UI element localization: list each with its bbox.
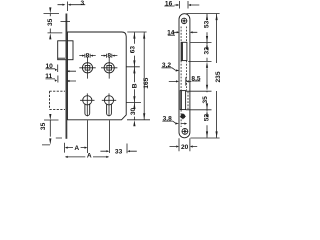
8-dim arrows s1 [82,55,93,57]
svg-text:10: 10 [46,63,54,70]
svg-text:B: B [131,83,138,88]
35 bottom arrows [49,114,51,120]
dim3 arrows [63,4,66,6]
svg-text:63: 63 [130,46,137,54]
dim A row2 line [67,156,107,158]
dim 53 line [206,14,208,43]
svg-text:35: 35 [40,122,47,130]
svg-text:32: 32 [203,47,210,55]
tick on faceplate [61,20,71,22]
A row1 arrows [65,147,68,149]
deadbolt hidden (dashed) [50,91,66,109]
3,8 arrows [175,123,179,125]
32 arrows [206,43,208,49]
svg-text:35: 35 [202,96,209,104]
cylinder hole 2 [104,96,113,105]
dim 165 line [143,32,145,119]
dim 3,8 leader [162,121,184,124]
strike/face plate outline [179,14,190,138]
dim 32 line [206,43,208,62]
dim 35 bottom-left [42,120,62,145]
14 arrows [177,31,180,33]
svg-text:8: 8 [107,52,111,59]
svg-text:20: 20 [181,144,189,151]
lock case body [68,32,127,120]
arrowheads [49,4,218,158]
dim 52 line [206,110,208,137]
svg-text:8,5: 8,5 [191,75,200,82]
right-of-case extension lines [127,32,151,120]
svg-text:52: 52 [203,114,210,122]
dim A row1 line [67,147,85,149]
dim 10 leader [46,65,77,73]
spindle hole 2 [104,63,114,73]
svg-text:30: 30 [130,108,137,116]
dim 235 line [216,14,218,138]
16 arrows [177,4,180,6]
dim 30 line [133,103,135,120]
svg-text:53: 53 [203,20,210,28]
53 arrows [206,14,208,20]
235 arrows [216,14,218,20]
svg-text:A: A [87,152,92,159]
dim 11 leader [46,76,77,83]
52 arrows [206,110,208,116]
35 top arrows (outside) [49,7,51,13]
latch bevel line [58,57,65,59]
spindle hole 1 [82,63,92,73]
right side extension lines [186,14,220,139]
8-dim arrows s2 [104,55,115,57]
svg-text:3,8: 3,8 [163,115,172,122]
dim 16 [164,1,199,9]
dim 33 line [100,150,136,152]
10/11 arrows [55,69,57,71]
dim 8 (spindle 1) [79,54,95,58]
latch bolt [58,41,73,60]
dim 35 line (right) [206,68,208,109]
bottom dim extension lines [65,120,127,153]
dim 63 line [133,32,135,66]
svg-text:14: 14 [167,29,175,36]
latch cutout [181,42,187,60]
63 arrows [133,32,135,38]
svg-text:165: 165 [143,77,150,88]
dim 14 [168,32,198,35]
dim 20 [170,138,198,151]
mid dashed lines [181,61,188,127]
30 arrows [133,103,135,109]
latch cutout dashed [181,27,187,43]
deadbolt cutout [180,91,185,110]
top screw hole [181,18,187,24]
8,5 arrows [176,80,179,82]
svg-text:33: 33 [115,149,123,156]
dim 3,2 leader [162,68,176,71]
dim 3 (faceplate thickness, top) [58,2,86,12]
165 arrows [143,32,145,38]
B arrows [133,67,135,73]
20 arrows [176,145,179,147]
cylinder hole 1 [83,96,92,105]
svg-text:A: A [74,145,79,152]
dim 8 (spindle 2) [101,54,117,58]
svg-text:8: 8 [86,52,90,59]
bottom screw hole [182,129,188,135]
svg-text:11: 11 [45,73,52,80]
svg-text:16: 16 [165,0,173,7]
dim B line [133,67,135,102]
svg-text:235: 235 [215,71,222,82]
svg-text:3: 3 [80,0,84,7]
35r arrows [206,85,208,91]
small filled hole [181,114,186,119]
dim 35 top-left [44,14,63,33]
faceplate [66,14,68,139]
33 arrows (outside) [106,150,109,152]
3,2 arrow [176,70,180,72]
A row2 arrows [65,156,68,158]
svg-text:3,2: 3,2 [162,62,171,69]
dim 8,5 [169,77,201,85]
svg-text:35: 35 [47,18,54,26]
